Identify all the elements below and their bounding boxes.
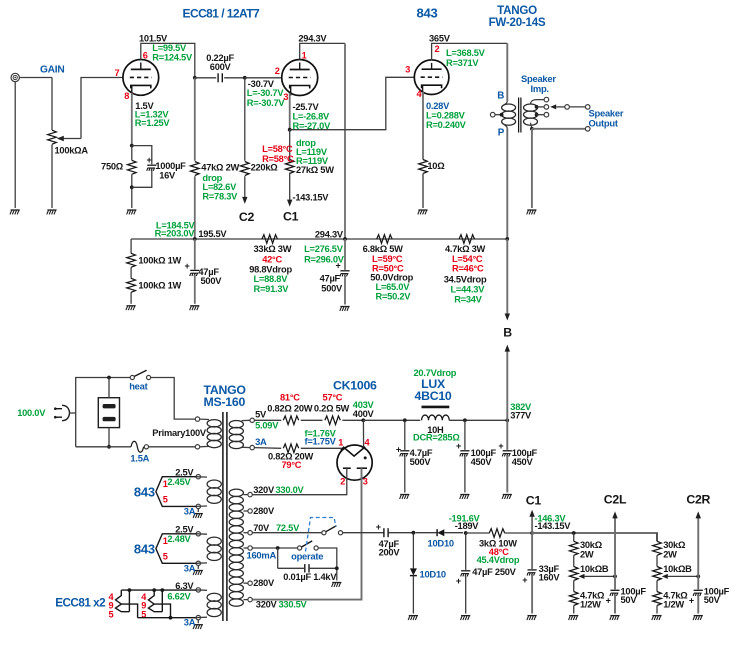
wire jack to pot <box>19 77 52 79</box>
svg-text:+: + <box>396 444 401 454</box>
pin 5 ecc2 <box>141 610 146 620</box>
ECC81 heater bracket 1 <box>116 588 138 618</box>
svg-text:0.01µF 1.4kV: 0.01µF 1.4kV <box>283 572 337 582</box>
pin 7 U1a <box>115 68 120 78</box>
pot wiper left <box>579 574 617 579</box>
title LUX 4BC10 <box>414 377 451 403</box>
svg-text:3A: 3A <box>184 563 196 574</box>
svg-text:L=58°C: L=58°C <box>262 144 293 154</box>
primary winding <box>195 417 221 449</box>
ground 10Ω <box>418 210 428 214</box>
tube U1a ECC81 <box>123 60 159 96</box>
svg-text:C2L: C2L <box>604 493 627 507</box>
svg-text:4.7kΩ 3W: 4.7kΩ 3W <box>445 244 486 254</box>
label 100.0V <box>17 408 46 418</box>
label f=1.75V <box>305 436 337 446</box>
svg-text:1.5A: 1.5A <box>130 453 149 464</box>
resistor 100kΩ 1W a <box>127 253 182 267</box>
svg-text:R=0.240V: R=0.240V <box>426 120 467 130</box>
potentiometer 100kΩA <box>48 130 89 155</box>
svg-text:DCR=285Ω: DCR=285Ω <box>413 432 460 442</box>
node 100uF a junction <box>463 418 467 422</box>
wire 100k to ground <box>130 292 132 304</box>
wire bias rail right <box>532 533 657 541</box>
choke LUX 4BC10 <box>413 407 460 442</box>
capacitor 100µF 50V right <box>689 576 730 613</box>
arrow C2 down <box>242 197 247 204</box>
svg-text:ECC81 x2: ECC81 x2 <box>55 597 106 610</box>
resistor 4.7kΩ 1/2W right <box>653 590 689 609</box>
label L=0.288V <box>426 111 466 121</box>
svg-text:C1: C1 <box>526 494 542 508</box>
resistor 100kΩ 1W b <box>127 278 182 292</box>
label 3A c <box>184 617 196 628</box>
label R=-30.7V <box>247 98 286 108</box>
pot wiper arrow <box>57 136 81 141</box>
resistor 0.82Ω 20W b <box>268 444 313 470</box>
label 294.3V top <box>298 33 327 43</box>
capacitor 100µF 450V a <box>456 420 496 492</box>
svg-text:42°C: 42°C <box>262 254 282 264</box>
label 20.7Vdrop <box>414 368 457 378</box>
wire lower switch right <box>318 548 337 581</box>
svg-text:195.5V: 195.5V <box>198 229 227 239</box>
svg-text:heat: heat <box>129 380 147 391</box>
svg-text:500V: 500V <box>201 276 223 286</box>
capacitor 100µF 50V left <box>606 576 647 613</box>
svg-text:1: 1 <box>302 50 307 60</box>
label L=-30.7V <box>247 88 285 98</box>
ground 47µF b <box>340 307 350 311</box>
svg-text:CK1006: CK1006 <box>333 378 377 392</box>
svg-text:operate: operate <box>291 550 323 561</box>
HV winding <box>229 489 243 606</box>
pin 4 ecc2 <box>141 592 147 602</box>
843 heater winding 1 <box>193 475 221 519</box>
diode 10D10 shunt <box>410 533 446 614</box>
wire 30k to pot right <box>656 555 658 566</box>
wire to grid U1b <box>245 77 282 79</box>
svg-text:200V: 200V <box>379 548 401 558</box>
wire B to OPT primary <box>506 43 508 101</box>
wire pot to 4.7k left <box>573 581 575 592</box>
resistor 30kΩ 2W left <box>569 540 602 559</box>
ground chain right <box>652 616 662 620</box>
diode 10D10 series <box>416 529 464 548</box>
rectifier CK1006 <box>337 445 372 480</box>
svg-text:R=-30.7V: R=-30.7V <box>247 98 286 108</box>
label C2L <box>604 493 627 507</box>
svg-text:34.5Vdrop: 34.5Vdrop <box>444 274 487 284</box>
wire plate U1b drop <box>344 43 346 239</box>
svg-text:L=44.3V: L=44.3V <box>451 285 486 295</box>
wire speaker output low <box>532 127 590 132</box>
svg-text:27kΩ 5W: 27kΩ 5W <box>296 165 334 175</box>
wire CT tap <box>252 547 298 549</box>
node bias pump junction <box>412 531 416 535</box>
wire r3 to CK pin1 <box>301 447 344 449</box>
svg-text:1: 1 <box>163 479 168 489</box>
resistor 30kΩ 2W right <box>653 540 686 559</box>
label 160mA <box>247 550 277 561</box>
pin 4 ecc1 <box>109 592 115 602</box>
svg-text:B: B <box>503 326 512 340</box>
svg-text:100kΩA: 100kΩA <box>55 145 89 155</box>
svg-text:750Ω: 750Ω <box>101 162 124 172</box>
svg-text:294.3V: 294.3V <box>298 33 327 43</box>
label R=1.25V <box>135 118 171 128</box>
label 377V <box>510 411 532 421</box>
wire rail left drop <box>130 239 132 254</box>
ground 100µF right <box>693 616 703 620</box>
svg-text:10D10: 10D10 <box>428 537 454 548</box>
label R=124.5V <box>152 52 193 62</box>
arrow B down <box>505 314 510 321</box>
svg-text:81°C: 81°C <box>280 392 300 402</box>
svg-text:Output: Output <box>589 118 618 129</box>
ground 100k chain <box>126 306 136 310</box>
pin 8 U1a <box>124 91 129 101</box>
wire 10Ω to ground <box>422 174 424 209</box>
label L=1.32V <box>135 109 170 119</box>
label -25.7V <box>293 102 320 112</box>
svg-text:3: 3 <box>405 65 410 75</box>
svg-text:-143.15V: -143.15V <box>535 521 572 531</box>
label B OPT <box>497 90 504 101</box>
label L=184.5V <box>156 220 196 230</box>
svg-text:7: 7 <box>115 68 120 78</box>
svg-text:6.3V: 6.3V <box>175 581 194 591</box>
wire choke out <box>449 419 507 421</box>
ground 10D10 <box>408 616 418 620</box>
node C1 junction <box>530 531 534 535</box>
wire r1 to r2 <box>301 419 323 421</box>
svg-text:47kΩ 2W: 47kΩ 2W <box>201 162 239 172</box>
svg-text:C2: C2 <box>239 210 255 224</box>
wire 30k to pot left <box>573 555 575 566</box>
capacitor 47µF 200V <box>376 522 414 558</box>
svg-text:100kΩ 1W: 100kΩ 1W <box>138 280 181 290</box>
node rect out 403V <box>361 418 365 422</box>
wire cathode U1b <box>289 93 291 130</box>
fuse 1.5A <box>130 441 149 463</box>
svg-text:5: 5 <box>163 552 168 562</box>
svg-text:ECC81 / 12AT7: ECC81 / 12AT7 <box>183 7 261 21</box>
svg-text:+: + <box>335 260 340 270</box>
wire AC riser <box>76 378 131 447</box>
label 280V a <box>253 506 275 516</box>
ground OPT secondary <box>527 210 537 214</box>
svg-text:600V: 600V <box>210 62 232 72</box>
pin 5 843a <box>163 494 168 504</box>
wire between 100k <box>130 267 132 278</box>
wire OPT sec ground <box>531 129 533 208</box>
svg-text:R=371V: R=371V <box>446 58 479 68</box>
OPT primary winding <box>502 101 516 129</box>
label f=1.76V <box>305 429 337 439</box>
label ECC81 x2 <box>55 597 106 610</box>
label 70V <box>253 523 300 533</box>
OPT primary UL tap <box>490 112 503 117</box>
wire r2 to node <box>342 419 363 421</box>
resistor 750Ω <box>101 146 136 175</box>
label R=371V <box>446 58 479 68</box>
svg-text:2W: 2W <box>663 549 677 559</box>
node rail junction 195.5V <box>193 237 197 241</box>
wire switch to cap <box>343 532 384 534</box>
wire 70V to switch <box>252 532 321 534</box>
ground 100µF b <box>502 495 512 499</box>
pin 3 U1b <box>283 92 288 102</box>
svg-text:50.0Vdrop: 50.0Vdrop <box>370 272 413 282</box>
wire pot bottom <box>51 144 53 208</box>
svg-text:3A: 3A <box>255 436 267 447</box>
label 3A a <box>184 505 196 516</box>
svg-text:79°C: 79°C <box>282 460 302 470</box>
wire CK pin4 to node <box>362 420 364 446</box>
node cathode2 junction <box>288 128 292 132</box>
wire 5V top <box>254 419 281 421</box>
svg-text:+: + <box>522 575 527 585</box>
label 280V b <box>253 578 275 588</box>
label -30.7V <box>248 79 275 89</box>
resistor 0.82Ω 20W a <box>267 392 312 424</box>
potentiometer 10kΩB left <box>569 564 608 580</box>
label 2.5V b <box>175 525 194 535</box>
label GAIN <box>40 64 64 75</box>
label R=0.240V <box>426 120 467 130</box>
svg-text:160V: 160V <box>539 572 561 582</box>
capacitor 0.22µF 600V <box>195 53 245 82</box>
ground 4.7µF <box>400 495 410 499</box>
svg-text:50V: 50V <box>704 595 721 605</box>
svg-text:70V: 70V <box>253 523 270 533</box>
wire 5V bottom <box>254 447 281 450</box>
svg-text:R=50.2V: R=50.2V <box>376 291 412 301</box>
ground 47µF a <box>190 306 200 310</box>
label 195.5V <box>198 229 227 239</box>
svg-text:500V: 500V <box>321 283 343 293</box>
wire CK pin3 <box>252 468 361 599</box>
node rail junction 294.3V <box>343 237 347 241</box>
capacitor 1000µF 16V <box>132 146 186 188</box>
label 843 a <box>134 484 155 499</box>
label 2.45V <box>167 477 191 487</box>
svg-text:R=34V: R=34V <box>454 295 482 305</box>
svg-text:1: 1 <box>338 437 343 447</box>
pin 2 843 <box>435 44 440 54</box>
svg-text:5.09V: 5.09V <box>255 420 279 430</box>
capacitor 47µF 500V b <box>320 239 350 305</box>
svg-text:330.0V: 330.0V <box>276 485 305 495</box>
svg-text:3: 3 <box>363 476 368 486</box>
svg-text:2W: 2W <box>580 549 594 559</box>
pin 4 843 <box>417 89 423 99</box>
svg-text:R=1.25V: R=1.25V <box>135 118 171 128</box>
label R=296.0V <box>304 254 345 264</box>
svg-text:L=54°C: L=54°C <box>452 254 483 264</box>
switch operate upper <box>322 526 343 535</box>
svg-text:+: + <box>376 522 381 532</box>
svg-text:320V: 320V <box>256 600 278 610</box>
label Primary100V <box>152 428 207 438</box>
svg-text:6: 6 <box>143 50 148 60</box>
ground 100µF left <box>610 616 620 620</box>
svg-text:R=91.3V: R=91.3V <box>254 284 290 294</box>
wire C2R up <box>697 518 699 576</box>
pin 5 ecc1 <box>109 610 114 620</box>
svg-text:4BC10: 4BC10 <box>414 389 451 403</box>
843 no1 heater bracket <box>156 477 196 507</box>
label B net <box>503 326 512 340</box>
svg-text:+: + <box>498 441 503 451</box>
svg-text:P: P <box>498 128 505 139</box>
svg-text:5: 5 <box>109 610 114 620</box>
wire plug to split <box>70 412 76 414</box>
pin 1 843b <box>163 536 168 546</box>
svg-text:280V: 280V <box>253 578 275 588</box>
relay link dashed <box>306 518 337 552</box>
svg-text:450V: 450V <box>512 457 534 467</box>
svg-text:2.5V: 2.5V <box>175 468 194 478</box>
svg-text:L=59°C: L=59°C <box>372 254 403 264</box>
OPT core <box>519 98 521 133</box>
wire B down arrow <box>506 239 508 314</box>
label 2.48V <box>167 534 191 544</box>
wire cathode 843 <box>422 92 424 160</box>
pin 5 843b <box>163 552 168 562</box>
label 320V top <box>253 485 304 495</box>
ground 33µF <box>527 616 537 620</box>
pin 6 U1a <box>143 50 148 60</box>
svg-text:10D10: 10D10 <box>420 568 446 579</box>
svg-text:C2R: C2R <box>686 493 710 507</box>
label L=276.5V <box>304 244 344 254</box>
wire rect rail <box>363 419 420 421</box>
capacitor 47µF 500V a <box>184 239 222 304</box>
label 101.5V <box>139 33 168 43</box>
node bias cap junction <box>464 531 468 535</box>
svg-text:f=1.75V: f=1.75V <box>305 436 337 446</box>
arrow C2R <box>696 511 702 518</box>
pin 4 CK1006 <box>365 437 371 447</box>
svg-text:57°C: 57°C <box>323 392 343 402</box>
svg-text:160mA: 160mA <box>247 550 277 561</box>
ground chain left <box>569 616 579 620</box>
node 4.7uF junction <box>403 418 407 422</box>
svg-text:330.5V: 330.5V <box>279 600 308 610</box>
svg-text:843: 843 <box>134 484 155 499</box>
pin 9 ecc1 <box>109 601 114 611</box>
label 2.5V a <box>175 468 194 478</box>
svg-text:33kΩ 3W: 33kΩ 3W <box>254 244 292 254</box>
wire plate U1b <box>300 43 345 59</box>
svg-text:Primary100V: Primary100V <box>152 428 207 438</box>
wire CK pin2 <box>252 468 346 494</box>
pin 1 U1b <box>302 50 307 60</box>
pin 2 CK1006 <box>340 476 345 486</box>
svg-text:320V: 320V <box>253 485 275 495</box>
svg-text:R=58°C: R=58°C <box>262 154 294 164</box>
title CK1006 <box>333 378 377 392</box>
label L=99.5V <box>152 43 187 53</box>
ECC81 heater bracket 2 <box>148 588 172 619</box>
pin 3 CK1006 <box>363 476 368 486</box>
pin 1 843a <box>163 479 168 489</box>
label 320V bottom <box>256 600 308 610</box>
svg-text:Imp.: Imp. <box>531 83 549 94</box>
resistor 10Ω <box>419 160 446 174</box>
label -143.15V <box>535 521 572 531</box>
potentiometer 10kΩB right <box>653 564 692 580</box>
5V rectifier winding <box>229 410 279 450</box>
pin 3 843 <box>405 65 410 75</box>
svg-text:2: 2 <box>340 476 345 486</box>
svg-text:2.48V: 2.48V <box>167 534 191 544</box>
wire pot top <box>51 78 53 131</box>
wire AC bottom <box>76 446 131 448</box>
resistor 6.8kΩ 5W <box>363 235 414 302</box>
node cathode1 junction <box>130 144 134 148</box>
svg-text:3A: 3A <box>184 505 196 516</box>
svg-text:FW-20-14S: FW-20-14S <box>489 16 546 29</box>
wire heater bottom <box>138 617 197 619</box>
ground operate <box>332 583 342 587</box>
label 6.3V <box>175 581 194 591</box>
svg-text:L=368.5V: L=368.5V <box>446 48 486 58</box>
capacitor 4.7µF 500V <box>396 420 433 492</box>
arrow C1 up <box>529 510 534 517</box>
wire 4.7k gnd left <box>573 606 575 614</box>
label L=368.5V <box>446 48 486 58</box>
wire 750 bottom <box>131 174 133 208</box>
svg-text:-143.15V: -143.15V <box>293 192 330 202</box>
resistor 33kΩ 3W <box>249 235 292 294</box>
wire chain top left <box>573 533 575 541</box>
title TANGO FW-20-14S <box>489 4 546 29</box>
node chain1 junction <box>572 531 576 535</box>
svg-text:MS-160: MS-160 <box>204 395 246 409</box>
resistor 220kΩ <box>241 78 279 198</box>
ground 47µF 250V <box>461 616 471 620</box>
svg-text:R=203.0V: R=203.0V <box>155 228 196 238</box>
svg-text:294.3V: 294.3V <box>315 229 344 239</box>
pot wiper right <box>662 574 700 579</box>
label -146.3V <box>535 513 567 523</box>
label -143.15V <box>293 192 330 202</box>
capacitor 47µF 250V <box>456 533 517 614</box>
label 382V <box>510 402 532 412</box>
wire pot to 4.7k right <box>656 581 658 592</box>
OPT sec tap 3 <box>535 112 549 117</box>
svg-text:280V: 280V <box>253 506 275 516</box>
svg-text:100.0V: 100.0V <box>17 408 46 418</box>
pin 9 ecc2 <box>141 601 146 611</box>
resistor 4.7kΩ 1/2W left <box>569 590 605 609</box>
title 843 <box>417 6 438 21</box>
resistor 3kΩ 10W <box>466 529 532 565</box>
wire 4.7k gnd right <box>656 606 658 614</box>
svg-text:5: 5 <box>163 494 168 504</box>
svg-text:L=-26.8V: L=-26.8V <box>293 111 331 121</box>
label P OPT <box>498 128 505 139</box>
svg-text:+: + <box>184 261 189 271</box>
label 294.3V rail <box>315 229 344 239</box>
label R=203.0V <box>155 228 196 238</box>
capacitor 100µF 450V b <box>498 420 537 492</box>
843 no2 heater bracket <box>156 534 196 564</box>
arrow C2L <box>612 511 617 518</box>
